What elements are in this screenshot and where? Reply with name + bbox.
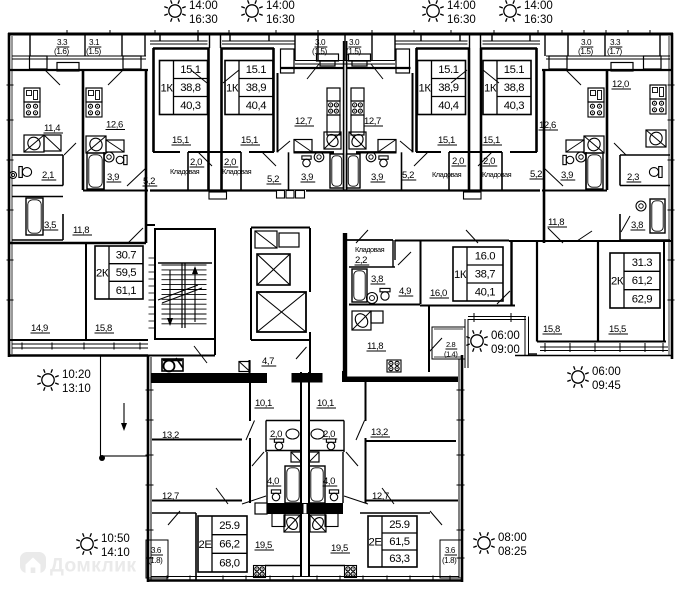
svg-text:2Е: 2Е bbox=[368, 536, 382, 548]
svg-text:15.1: 15.1 bbox=[504, 64, 525, 76]
svg-text:40,3: 40,3 bbox=[180, 100, 201, 112]
svg-text:(1.7): (1.7) bbox=[607, 47, 623, 56]
svg-text:12,7: 12,7 bbox=[372, 491, 389, 502]
svg-text:15,5: 15,5 bbox=[609, 324, 626, 335]
svg-text:14:00: 14:00 bbox=[189, 0, 218, 12]
svg-text:(1.5): (1.5) bbox=[346, 47, 362, 56]
svg-text:3,9: 3,9 bbox=[561, 170, 573, 181]
svg-text:3,8: 3,8 bbox=[371, 274, 383, 285]
svg-text:15.1: 15.1 bbox=[246, 64, 267, 76]
svg-text:10:20: 10:20 bbox=[62, 369, 91, 381]
svg-text:11,8: 11,8 bbox=[548, 217, 564, 228]
svg-text:(1.5): (1.5) bbox=[86, 47, 102, 56]
svg-text:(1.5): (1.5) bbox=[578, 47, 594, 56]
svg-text:3.1: 3.1 bbox=[89, 38, 100, 47]
svg-text:31.3: 31.3 bbox=[632, 257, 653, 269]
svg-text:3.6: 3.6 bbox=[151, 546, 162, 555]
svg-text:08:00: 08:00 bbox=[498, 532, 527, 544]
svg-text:15,8: 15,8 bbox=[95, 323, 112, 334]
svg-text:14,9: 14,9 bbox=[31, 323, 48, 334]
svg-text:19,5: 19,5 bbox=[331, 543, 348, 554]
svg-text:08:25: 08:25 bbox=[498, 546, 527, 558]
svg-text:(1.8): (1.8) bbox=[442, 556, 457, 565]
svg-text:3,8: 3,8 bbox=[631, 220, 643, 231]
svg-text:Кладовая: Кладовая bbox=[222, 167, 252, 176]
svg-text:61,1: 61,1 bbox=[116, 285, 137, 297]
svg-text:(1.8): (1.8) bbox=[148, 556, 163, 565]
svg-text:12,7: 12,7 bbox=[162, 491, 179, 502]
svg-text:11,4: 11,4 bbox=[44, 123, 60, 134]
svg-text:13:10: 13:10 bbox=[62, 383, 91, 395]
svg-text:40,3: 40,3 bbox=[504, 100, 525, 112]
svg-text:40,4: 40,4 bbox=[438, 100, 459, 112]
svg-text:12,6: 12,6 bbox=[106, 120, 123, 131]
svg-text:11,8: 11,8 bbox=[73, 225, 89, 236]
svg-text:3.6: 3.6 bbox=[445, 546, 456, 555]
svg-text:16,0: 16,0 bbox=[430, 288, 447, 299]
svg-text:4,0: 4,0 bbox=[267, 476, 279, 487]
svg-text:1К: 1К bbox=[226, 82, 239, 94]
svg-text:15.1: 15.1 bbox=[180, 64, 201, 76]
svg-text:14:00: 14:00 bbox=[447, 0, 476, 12]
svg-text:13,2: 13,2 bbox=[162, 430, 179, 441]
svg-text:2Е: 2Е bbox=[198, 539, 212, 551]
svg-text:25.9: 25.9 bbox=[389, 519, 410, 531]
svg-text:1К: 1К bbox=[160, 82, 173, 94]
svg-text:3.0: 3.0 bbox=[315, 38, 326, 47]
svg-text:40,1: 40,1 bbox=[475, 287, 496, 299]
svg-text:62,9: 62,9 bbox=[632, 293, 653, 305]
svg-text:Кладовая: Кладовая bbox=[355, 245, 385, 254]
svg-text:10,1: 10,1 bbox=[317, 398, 334, 409]
svg-text:2,0: 2,0 bbox=[323, 429, 335, 440]
svg-text:3.3: 3.3 bbox=[57, 38, 68, 47]
svg-text:Кладовая: Кладовая bbox=[170, 167, 200, 176]
svg-text:25.9: 25.9 bbox=[219, 520, 240, 532]
svg-text:2,0: 2,0 bbox=[270, 429, 282, 440]
svg-text:38,7: 38,7 bbox=[475, 269, 496, 281]
svg-text:5,2: 5,2 bbox=[402, 170, 414, 181]
svg-text:Кладовая: Кладовая bbox=[482, 170, 512, 179]
svg-text:12,7: 12,7 bbox=[364, 116, 381, 127]
svg-text:63,3: 63,3 bbox=[389, 553, 410, 565]
svg-text:16:30: 16:30 bbox=[189, 14, 218, 26]
svg-text:15,1: 15,1 bbox=[241, 135, 258, 146]
svg-text:66,2: 66,2 bbox=[219, 539, 240, 551]
svg-text:5,2: 5,2 bbox=[143, 176, 155, 187]
svg-text:(1.6): (1.6) bbox=[54, 47, 70, 56]
svg-text:12,6: 12,6 bbox=[539, 120, 556, 131]
svg-text:61,2: 61,2 bbox=[632, 275, 653, 287]
svg-text:(1.4): (1.4) bbox=[444, 350, 458, 359]
svg-text:1К: 1К bbox=[484, 82, 497, 94]
svg-text:14:00: 14:00 bbox=[524, 0, 553, 12]
svg-text:15,1: 15,1 bbox=[172, 135, 189, 146]
svg-text:14:00: 14:00 bbox=[266, 0, 295, 12]
svg-text:16:30: 16:30 bbox=[524, 14, 553, 26]
svg-text:4,9: 4,9 bbox=[399, 286, 411, 297]
svg-text:38,8: 38,8 bbox=[504, 82, 525, 94]
svg-text:06:00: 06:00 bbox=[592, 366, 621, 378]
svg-text:59,5: 59,5 bbox=[116, 267, 137, 279]
svg-text:2.8: 2.8 bbox=[446, 340, 455, 349]
svg-text:15,8: 15,8 bbox=[543, 324, 560, 335]
svg-text:2К: 2К bbox=[611, 275, 624, 287]
svg-text:40,4: 40,4 bbox=[246, 100, 267, 112]
svg-text:2,0: 2,0 bbox=[483, 156, 495, 167]
svg-text:1К: 1К bbox=[454, 269, 467, 281]
svg-text:19,5: 19,5 bbox=[255, 540, 272, 551]
svg-text:3,9: 3,9 bbox=[107, 172, 119, 183]
svg-text:2,0: 2,0 bbox=[452, 156, 464, 167]
svg-text:11,8: 11,8 bbox=[367, 341, 383, 352]
svg-text:3,9: 3,9 bbox=[301, 172, 313, 183]
svg-text:30.7: 30.7 bbox=[116, 249, 137, 261]
svg-text:13,2: 13,2 bbox=[371, 427, 388, 438]
svg-text:16:30: 16:30 bbox=[266, 14, 295, 26]
svg-text:3.0: 3.0 bbox=[581, 38, 592, 47]
svg-text:Домклик: Домклик bbox=[50, 555, 136, 577]
svg-text:2К: 2К bbox=[96, 267, 109, 279]
svg-text:2,3: 2,3 bbox=[627, 172, 639, 183]
svg-text:5,2: 5,2 bbox=[530, 169, 542, 180]
svg-text:15,1: 15,1 bbox=[483, 135, 500, 146]
svg-text:38,8: 38,8 bbox=[180, 82, 201, 94]
svg-text:3.3: 3.3 bbox=[610, 38, 621, 47]
svg-text:15,1: 15,1 bbox=[438, 135, 455, 146]
svg-text:16.0: 16.0 bbox=[475, 251, 496, 263]
svg-text:16:30: 16:30 bbox=[447, 14, 476, 26]
svg-text:3,5: 3,5 bbox=[44, 220, 56, 231]
svg-text:06:00: 06:00 bbox=[491, 330, 520, 342]
svg-text:Кладовая: Кладовая bbox=[432, 170, 462, 179]
svg-text:3,9: 3,9 bbox=[371, 172, 383, 183]
svg-text:12,0: 12,0 bbox=[612, 79, 629, 90]
svg-text:12,7: 12,7 bbox=[295, 116, 312, 127]
svg-text:5,2: 5,2 bbox=[267, 174, 279, 185]
svg-text:10:50: 10:50 bbox=[101, 533, 130, 545]
svg-text:3.0: 3.0 bbox=[349, 38, 360, 47]
svg-text:38,9: 38,9 bbox=[246, 82, 267, 94]
svg-text:15.1: 15.1 bbox=[438, 64, 459, 76]
svg-text:09:45: 09:45 bbox=[592, 380, 621, 392]
svg-text:38,9: 38,9 bbox=[438, 82, 459, 94]
svg-text:61,5: 61,5 bbox=[389, 536, 410, 548]
svg-text:2,1: 2,1 bbox=[42, 170, 54, 181]
svg-text:09:00: 09:00 bbox=[491, 344, 520, 356]
svg-text:2,2: 2,2 bbox=[355, 255, 367, 266]
svg-text:4,0: 4,0 bbox=[323, 476, 335, 487]
svg-text:1К: 1К bbox=[418, 82, 431, 94]
svg-text:(1.5): (1.5) bbox=[312, 47, 328, 56]
svg-text:4,7: 4,7 bbox=[262, 356, 274, 367]
svg-text:10,1: 10,1 bbox=[255, 398, 272, 409]
svg-text:68,0: 68,0 bbox=[219, 557, 240, 569]
